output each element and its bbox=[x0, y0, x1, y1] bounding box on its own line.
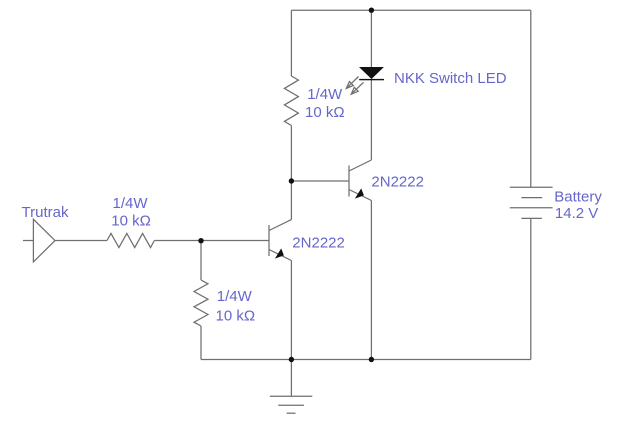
battery B1 plate short 2 bbox=[521, 217, 542, 219]
ground bar 3 bbox=[287, 412, 296, 414]
wire Q1 emitter vertical bbox=[290, 261, 292, 360]
ground stem bbox=[290, 360, 292, 397]
wire LED anode bbox=[370, 10, 372, 67]
wire node to R2 bbox=[200, 241, 202, 281]
wire buffer output to R1 bbox=[55, 240, 107, 242]
transistor Q1 emitter arrow bbox=[275, 248, 284, 258]
resistor R1 zigzag bbox=[107, 233, 154, 247]
wire battery top vertical bbox=[530, 10, 532, 187]
ground bar 2 bbox=[278, 404, 304, 406]
resistor R2 zigzag bbox=[194, 280, 208, 326]
svg-text:NKK Switch LED: NKK Switch LED bbox=[394, 70, 507, 87]
svg-text:1/4W: 1/4W bbox=[217, 288, 253, 305]
transistor Q2 base bar bbox=[348, 166, 350, 197]
wire Q2 emitter vertical bbox=[370, 201, 372, 360]
transistor Q2 emitter arrow bbox=[355, 188, 364, 198]
wire LED cathode to Q2 collector bbox=[370, 80, 372, 160]
battery B1 plate long top bbox=[510, 186, 553, 188]
wire R1 to Q1 base bbox=[154, 240, 269, 242]
junction dot Q1 collector / Q2 base bbox=[289, 178, 294, 183]
wire R2 to bottom rail bbox=[200, 326, 202, 360]
junction dot ground bbox=[289, 357, 294, 362]
transistor Q1 collector lead bbox=[269, 220, 291, 231]
svg-text:Battery: Battery bbox=[554, 189, 602, 206]
battery B1 plate short 1 bbox=[521, 197, 542, 199]
svg-text:10 kΩ: 10 kΩ bbox=[305, 104, 345, 121]
buffer triangle Trutrak bbox=[33, 219, 55, 262]
svg-text:2N2222: 2N2222 bbox=[371, 174, 424, 191]
transistor Q2 collector lead bbox=[349, 160, 371, 171]
resistor R3 zigzag bbox=[284, 76, 298, 126]
ground bar 1 bbox=[270, 395, 313, 397]
wire R3 to Q1 collector bbox=[290, 126, 292, 220]
junction dot Q2 emitter bottom bbox=[369, 357, 374, 362]
transistor Q1 base bar bbox=[268, 225, 270, 256]
wire input stub bbox=[23, 240, 33, 242]
svg-text:2N2222: 2N2222 bbox=[292, 235, 345, 252]
svg-text:Trutrak: Trutrak bbox=[22, 204, 69, 221]
wire top rail to R3 bbox=[290, 10, 292, 76]
svg-text:14.2 V: 14.2 V bbox=[555, 205, 598, 222]
junction dot top rail bbox=[369, 8, 374, 13]
transistor Q2 emitter lead bbox=[349, 190, 371, 201]
wire top rail bbox=[291, 9, 530, 11]
battery B1 plate long 2 bbox=[510, 207, 553, 209]
svg-text:1/4W: 1/4W bbox=[113, 195, 149, 212]
svg-text:1/4W: 1/4W bbox=[307, 86, 343, 103]
transistor Q1 emitter lead bbox=[269, 250, 291, 261]
LED D1 emission arrow 1 shaft bbox=[347, 77, 358, 88]
LED D1 emission arrow 1 head bbox=[346, 82, 353, 89]
LED D1 triangle bbox=[359, 67, 384, 79]
wire battery bottom vertical bbox=[530, 218, 532, 359]
wire Q2 base bbox=[291, 180, 349, 182]
junction dot R1 / R2 / Q1 base bbox=[198, 238, 203, 243]
wire bottom rail bbox=[201, 359, 531, 361]
svg-text:10 kΩ: 10 kΩ bbox=[111, 213, 151, 230]
svg-text:10 kΩ: 10 kΩ bbox=[216, 308, 256, 325]
LED D1 emission arrow 2 head bbox=[351, 87, 358, 94]
LED D1 emission arrow 2 shaft bbox=[352, 82, 363, 93]
LED D1 cathode bar bbox=[359, 79, 384, 80]
